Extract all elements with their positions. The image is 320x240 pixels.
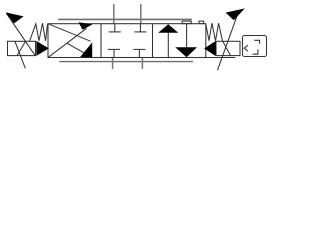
center position blocked port B (T symbol) (139, 24, 141, 32)
arrowhead up (158, 24, 178, 33)
wire port B top (140, 4, 142, 24)
solenoid B box (right) (216, 41, 240, 55)
solenoid A arrowhead (6, 12, 24, 23)
divider center/right (152, 24, 154, 58)
wire port P bottom (112, 58, 114, 70)
left position: crossed flow arrow P-B (48, 24, 90, 41)
solenoid A armature triangle (36, 41, 49, 56)
connector contact < (244, 45, 248, 51)
center position blocked port P (T symbol) (113, 50, 115, 58)
solenoid A cross line (17, 41, 26, 55)
wire port A top (113, 4, 115, 24)
small box c on body top (199, 21, 204, 24)
wire bottom edge extension (206, 57, 236, 59)
solenoid B armature triangle (204, 41, 216, 56)
solenoid A diagonal indicator (15, 41, 25, 68)
spring left (30, 23, 48, 41)
connector box (243, 36, 267, 57)
right position: flow down shaft (186, 24, 188, 48)
solenoid A proportional arrow shaft (6, 13, 35, 55)
wire bottom rail (59, 61, 193, 63)
spring right (206, 23, 223, 41)
connector corner mark bottom (253, 49, 258, 54)
solenoid B arrowhead (226, 8, 245, 20)
small box b on body top (182, 21, 191, 24)
wire into bottom arrowhead (67, 43, 87, 54)
wire top rail (58, 18, 192, 20)
center position blocked port T (T symbol) (138, 50, 140, 58)
solenoid B diagonal indicator (223, 41, 231, 55)
left position: crossed flow arrow A-T (49, 28, 87, 57)
valve body envelope (3 positions) (48, 24, 206, 58)
center position blocked port A (T symbol) (114, 24, 116, 32)
right position: flow up shaft (167, 33, 169, 58)
arrowhead top-right (79, 22, 93, 30)
solenoid A box (left) (8, 41, 36, 55)
arrowhead down (175, 47, 197, 57)
solenoid B proportional arrow shaft (218, 13, 239, 70)
divider left/center (100, 24, 102, 58)
connector corner mark top (254, 40, 259, 44)
arrowhead bottom-right (80, 42, 92, 57)
wire port T bottom (141, 58, 143, 70)
